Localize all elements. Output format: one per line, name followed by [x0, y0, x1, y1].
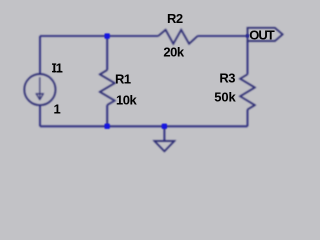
current source I1 circle: [24, 74, 55, 105]
svg-text:R1: R1: [115, 72, 131, 87]
resistor R3 zigzag: [240, 74, 255, 109]
junction node at R1 top: [105, 33, 110, 38]
junction node at ground: [162, 124, 167, 129]
wire R1 top lead: [106, 36, 108, 70]
svg-text:10k: 10k: [116, 93, 137, 108]
svg-text:1: 1: [54, 102, 61, 117]
svg-text:R3: R3: [219, 70, 235, 85]
serif bars for I1 glyphs: [52, 63, 62, 72]
wire top horizontal left segment: [40, 35, 158, 37]
wire below current source: [39, 105, 41, 126]
resistor R2 zigzag: [158, 30, 197, 44]
ground symbol: [154, 141, 174, 151]
wire R1 bottom lead: [106, 105, 108, 126]
svg-text:20k: 20k: [163, 44, 184, 59]
wire ground stub: [163, 126, 165, 141]
svg-text:50k: 50k: [214, 89, 236, 104]
svg-text:I1: I1: [53, 60, 63, 75]
wire R3 top lead: [247, 41, 249, 74]
net flag OUT outline: [248, 28, 283, 41]
junction node at R1 bottom: [105, 124, 110, 129]
wire bottom horizontal: [40, 125, 248, 127]
svg-text:R2: R2: [167, 11, 183, 26]
svg-text:OUT: OUT: [249, 28, 274, 43]
wire top horizontal right segment: [198, 35, 248, 37]
resistor R1 zigzag: [100, 70, 115, 105]
wire left vertical: [39, 36, 41, 74]
serif foot for 10k digit: [117, 103, 122, 104]
wire R3 bottom lead: [247, 110, 249, 127]
current source I1 arrow: [36, 77, 43, 99]
node blob at OUT flag anchor: [246, 34, 249, 37]
serif foot for value 1: [54, 112, 59, 113]
serif foot for R1 digit: [125, 82, 130, 83]
